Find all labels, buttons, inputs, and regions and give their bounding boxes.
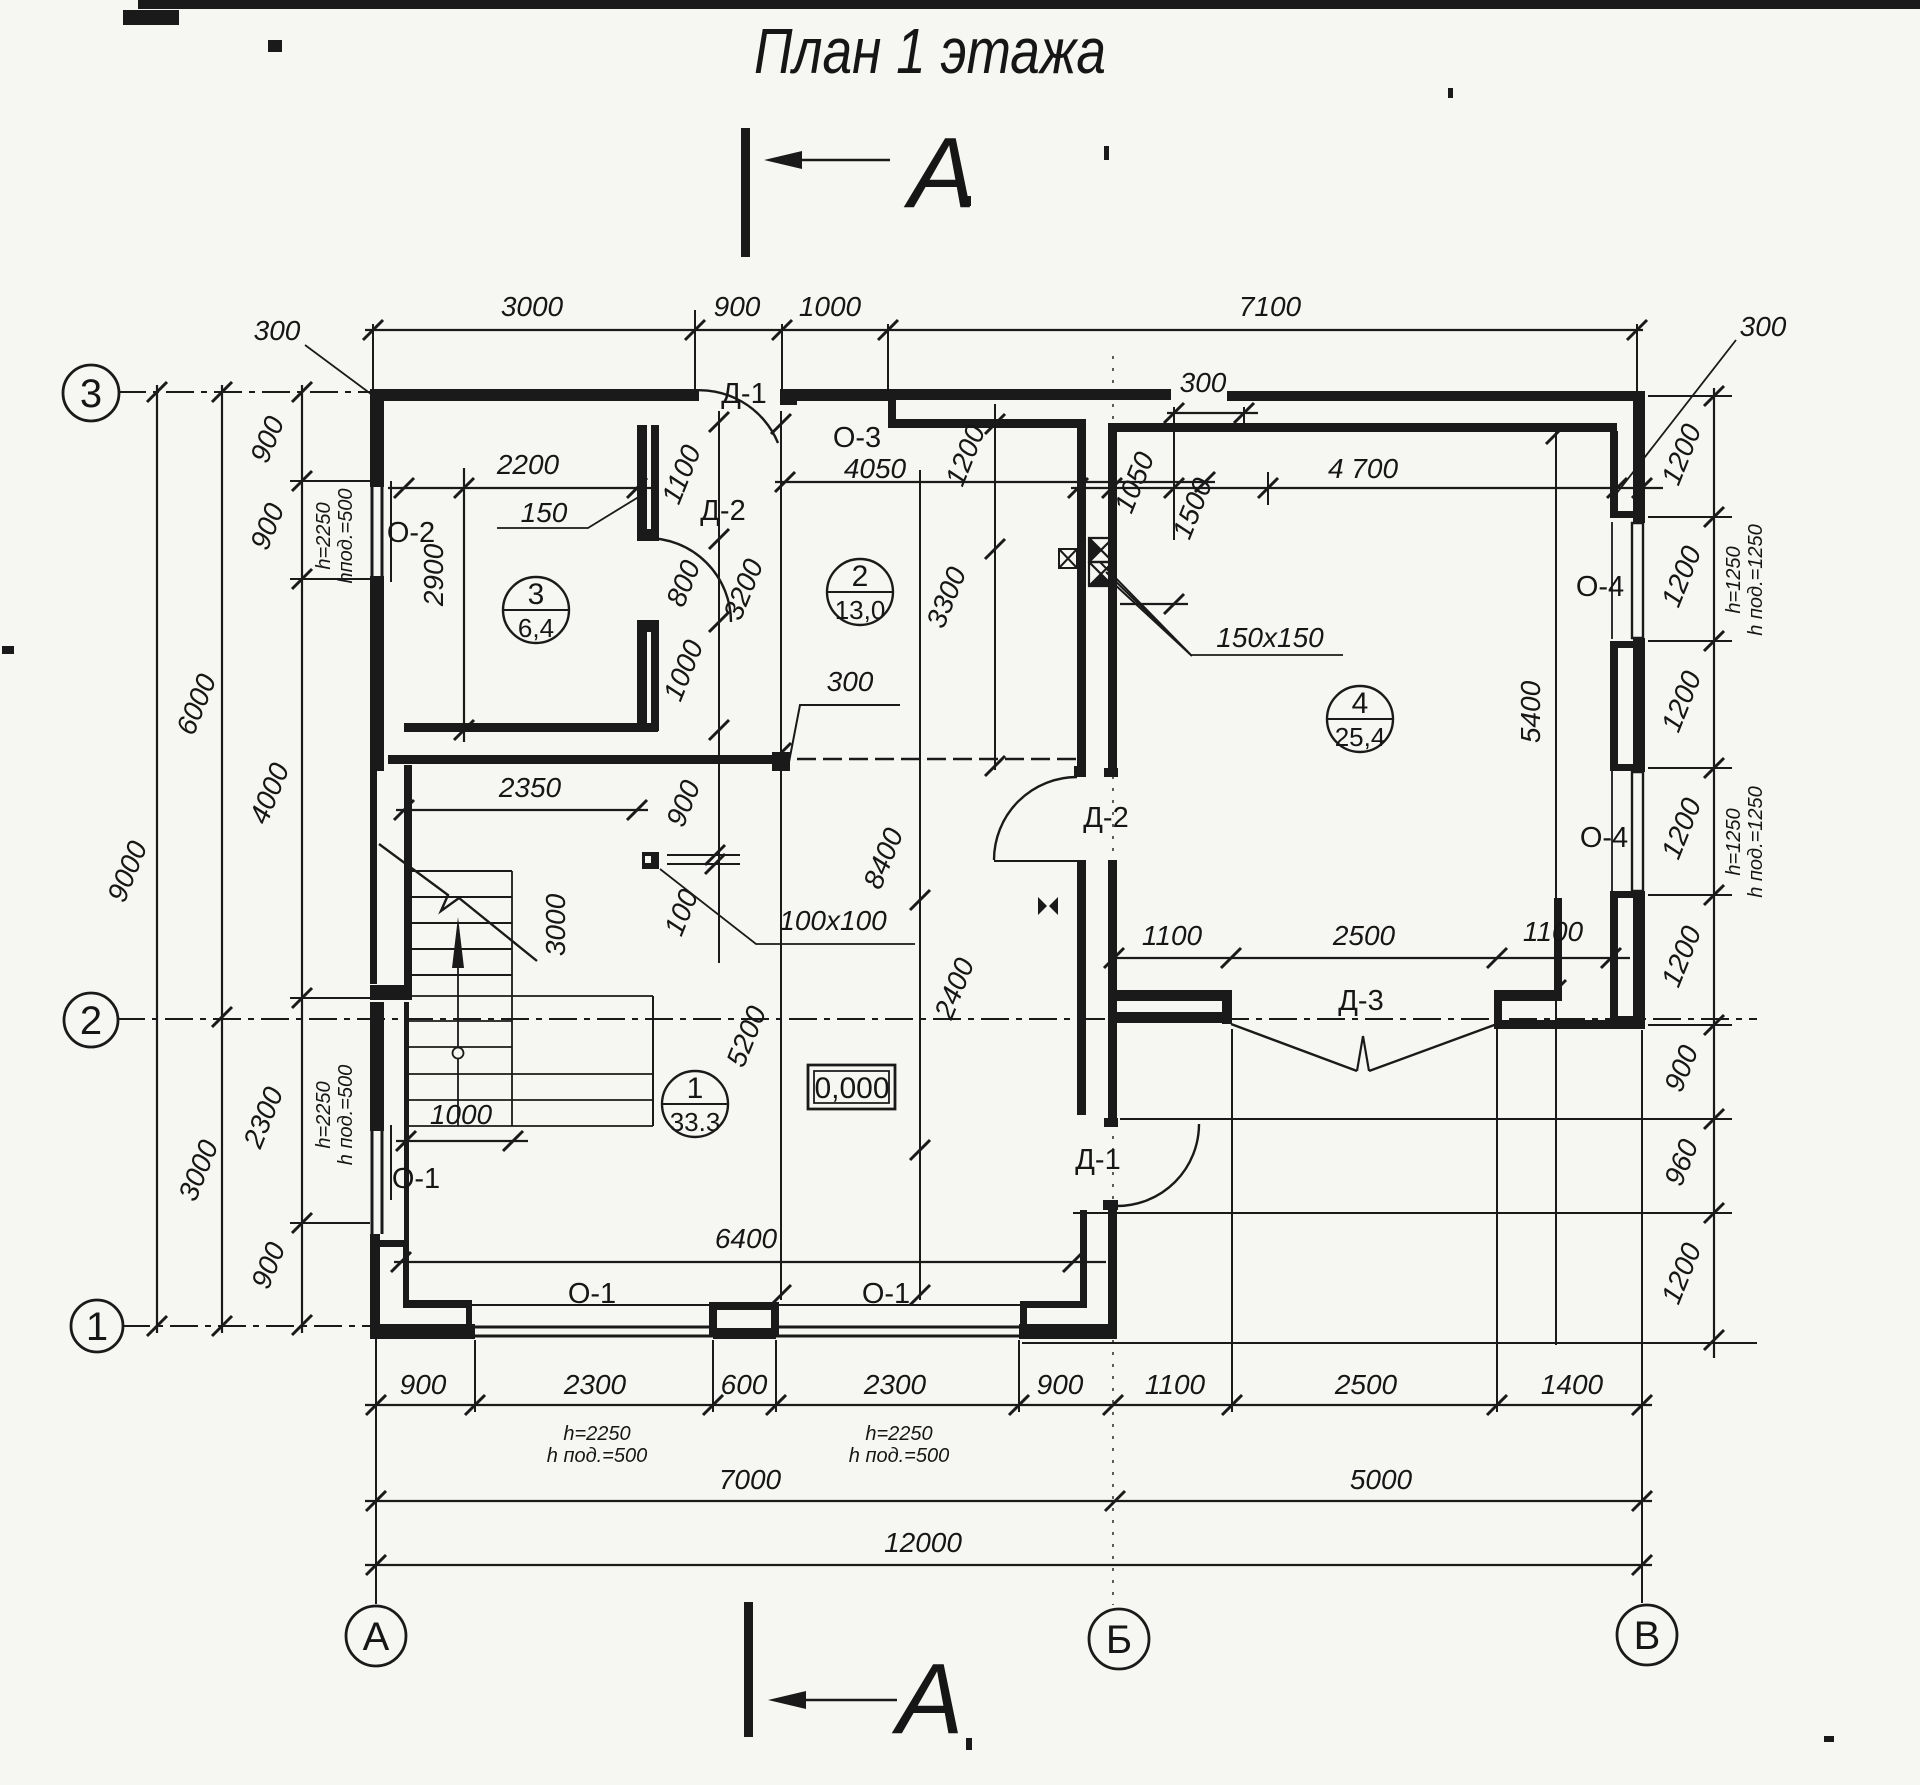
svg-text:2300: 2300 <box>863 1369 927 1400</box>
svg-text:2350: 2350 <box>498 772 562 803</box>
overhead beam dashed <box>797 758 1077 760</box>
svg-text:1400: 1400 <box>1541 1369 1604 1400</box>
svg-text:1100: 1100 <box>1523 916 1584 947</box>
middle wall W1 jog horizontal <box>1020 1301 1087 1308</box>
middle wall W2 mid segment <box>1108 860 1117 1126</box>
window О-2 outer line <box>371 487 374 576</box>
svg-text:Д-1: Д-1 <box>721 378 766 410</box>
right wall jog 4 <box>1610 891 1634 898</box>
middle wall W2 cap mid <box>1104 1118 1118 1127</box>
left outer wall thin section along stair <box>370 771 377 984</box>
door Д-1 hall swing arc <box>1117 1124 1199 1206</box>
right outer wall east segment 3 <box>1633 891 1645 1029</box>
room circle room 4 <box>1327 686 1393 752</box>
stair step 3 <box>404 922 512 924</box>
svg-text:1100: 1100 <box>1145 1369 1206 1400</box>
svg-text:25,4: 25,4 <box>1335 722 1386 752</box>
svg-text:1100: 1100 <box>1142 920 1203 951</box>
bay inner wall A <box>1494 990 1562 1001</box>
note h=2250 left upper <box>313 489 357 584</box>
svg-text:1000: 1000 <box>799 291 862 322</box>
window О-4 lower box <box>1632 772 1643 891</box>
extension line y641 right <box>1648 640 1732 642</box>
svg-text:О-4: О-4 <box>1580 822 1628 854</box>
stair step 7 <box>404 1046 512 1048</box>
note h=2250 left lower <box>313 1065 357 1165</box>
stair side wall thin <box>404 765 412 998</box>
dim tick x920 a <box>910 890 930 910</box>
corner niche bottom <box>403 1300 472 1308</box>
dimension line right 1050/1500/4700 <box>1068 478 1663 498</box>
corner niche right wall upper <box>403 1243 409 1306</box>
dimension line room4 1100/2500/1100 <box>1104 948 1630 968</box>
svg-text:h=2250: h=2250 <box>563 1423 630 1445</box>
room 3 partition lower strip right <box>651 622 659 731</box>
extension line x1637 top <box>1636 324 1638 391</box>
extension line x1244 <box>1243 407 1245 430</box>
svg-text:А: А <box>904 117 976 229</box>
extension line x888 top <box>887 324 889 389</box>
room 3 bottom wall <box>404 723 658 732</box>
svg-text:5000: 5000 <box>1350 1464 1413 1495</box>
svg-text:900: 900 <box>714 291 761 322</box>
extension line x475 bottom <box>474 1340 476 1412</box>
dimension line mid 300 <box>1164 403 1258 423</box>
svg-text:2500: 2500 <box>1332 920 1396 951</box>
dimension line room3 2900 <box>454 468 474 742</box>
leader 150 <box>497 493 645 528</box>
window О-1 left sill line <box>390 1125 392 1200</box>
window О-2 sill line <box>390 481 392 582</box>
section mark A top: arrowhead <box>764 151 802 169</box>
svg-text:900: 900 <box>400 1369 447 1400</box>
svg-text:Д-2: Д-2 <box>1083 802 1128 834</box>
dimension line post 1500 sub <box>1120 594 1188 614</box>
svg-text:7100: 7100 <box>1239 291 1302 322</box>
svg-text:900: 900 <box>1037 1369 1084 1400</box>
door Д-3 leaf left <box>1231 1024 1357 1071</box>
middle wall W1 mid segment <box>1077 860 1086 1115</box>
extension line x781 <box>780 411 782 1300</box>
extension line x1174 <box>1173 407 1175 540</box>
dim tick 5400 bottom <box>1546 980 1566 1000</box>
dimension line stair 1000 <box>396 1131 528 1151</box>
svg-text:1000: 1000 <box>430 1099 493 1130</box>
svg-text:2500: 2500 <box>1334 1369 1398 1400</box>
bottom window О-1 right sill line <box>770 1304 1025 1306</box>
extension line y1119 right <box>1120 1118 1732 1120</box>
bay left connector <box>1494 990 1502 1029</box>
top wall outer line over window О-3 <box>892 389 1171 400</box>
post leader shelf <box>1190 654 1343 656</box>
stair step 4 <box>404 948 512 950</box>
svg-text:6400: 6400 <box>715 1223 778 1254</box>
window О-3 inner wall line <box>892 419 1083 428</box>
svg-text:6,4: 6,4 <box>518 613 554 643</box>
corner niche top <box>372 1240 408 1247</box>
left outer wall bottom section <box>370 1234 380 1337</box>
svg-text:0,000: 0,000 <box>814 1072 889 1105</box>
dim tick x719 1000 <box>709 720 729 740</box>
stair step 1 <box>404 870 512 872</box>
dimension line bottom chain 12000 <box>365 1555 1652 1575</box>
dimension line bottom chain 7000/5000 <box>365 1491 1652 1511</box>
svg-text:h под.=500: h под.=500 <box>849 1445 949 1467</box>
svg-text:2200: 2200 <box>496 449 560 480</box>
svg-text:h под.=500: h под.=500 <box>335 1065 357 1165</box>
dim tick x781 mid <box>771 743 791 763</box>
svg-text:Б: Б <box>1106 1618 1132 1662</box>
extension line y517 right <box>1648 516 1732 518</box>
room 3 partition jamb cap lower <box>637 620 659 632</box>
svg-text:300: 300 <box>254 315 301 346</box>
door Д-2 room3 swing arc <box>647 538 731 622</box>
svg-text:А: А <box>892 1643 964 1755</box>
room 1 top partition end cap <box>772 752 790 771</box>
extension line y1213 right <box>1073 1212 1732 1214</box>
stair cut line <box>379 844 537 961</box>
svg-text:33.3: 33.3 <box>670 1107 721 1137</box>
stair landing edge <box>652 996 654 1126</box>
svg-text:7000: 7000 <box>719 1464 782 1495</box>
stair step 8 wide <box>404 1073 653 1075</box>
stair step 5 wide <box>404 995 653 997</box>
stair step 5 <box>404 974 512 976</box>
extension line y895 right <box>1648 894 1732 896</box>
svg-text:3: 3 <box>528 578 545 611</box>
bottom wall pier at axis А <box>370 1324 475 1339</box>
dim tick x995 mid <box>985 539 1005 559</box>
window О-1 left inner line <box>381 1131 384 1234</box>
extension line y1025 right <box>1648 1024 1732 1026</box>
extension line x920 <box>919 470 921 1300</box>
axis line 2 <box>117 1018 1757 1020</box>
dim tick x920 c <box>910 1285 930 1305</box>
axis circle А <box>346 1606 406 1666</box>
dim tick x719 1100 <box>709 529 729 549</box>
top wall left of door Д-1 <box>370 389 699 401</box>
stair stringer line <box>511 871 513 1126</box>
post leader lines <box>1100 562 1192 656</box>
stair wall extension down <box>404 1002 409 1245</box>
svg-text:100x100: 100x100 <box>779 905 887 936</box>
svg-text:h=1250: h=1250 <box>1723 546 1745 613</box>
dim tick x719 800 <box>709 612 729 632</box>
dim tick post 100 b <box>705 854 725 874</box>
dim tick x995 top <box>985 414 1005 434</box>
stair direction arrow shaft <box>457 950 459 1126</box>
extension line x995 <box>994 404 996 770</box>
svg-text:h=2250: h=2250 <box>865 1423 932 1445</box>
dimension line О-3 4050 <box>775 472 1215 492</box>
svg-text:h=2250: h=2250 <box>313 502 335 569</box>
svg-text:300: 300 <box>827 666 874 697</box>
scan speck <box>1448 88 1453 98</box>
window О-4 upper box <box>1632 523 1643 638</box>
svg-text:О-1: О-1 <box>862 1278 910 1310</box>
bottom window О-1 outer line <box>475 1326 713 1329</box>
extension line y579 <box>290 578 370 580</box>
svg-text:300: 300 <box>1180 367 1227 398</box>
dimension line room1 6400 <box>391 1252 1106 1272</box>
scan speck bottom middle <box>966 1738 972 1750</box>
extension line x713 bottom <box>712 1340 714 1412</box>
axis line В vertical below plan <box>1641 1030 1643 1603</box>
section mark A bottom: arrowhead <box>768 1691 806 1709</box>
svg-text:2: 2 <box>852 560 869 593</box>
scan artifact left smudge <box>123 10 179 25</box>
door Д-2 hall swing arc <box>994 777 1077 860</box>
room circle room 2 <box>827 559 893 625</box>
dim tick x995 bottom <box>985 756 1005 776</box>
top wall between Д-1 and О-3 <box>782 389 892 401</box>
stair niche bottom cap <box>370 985 412 1000</box>
middle wall W2 cap upper <box>1104 768 1118 777</box>
dim tick x781 top <box>771 414 791 434</box>
right outer wall east segment 2 <box>1633 638 1645 772</box>
room 3 partition jamb cap upper <box>637 529 659 541</box>
bay bottom wall C <box>1494 1020 1643 1029</box>
extension line x373 top <box>372 324 374 389</box>
svg-text:Д-1: Д-1 <box>1075 1144 1120 1176</box>
note h=2250 bottom left <box>547 1423 647 1467</box>
svg-text:5400: 5400 <box>1515 680 1546 743</box>
room circle room 3 <box>503 577 569 643</box>
dim tick x920 b <box>910 1140 930 1160</box>
dimension line left 9000 <box>147 382 167 1336</box>
section mark A top: bar <box>741 128 750 257</box>
extension line y396 right <box>1648 395 1732 397</box>
svg-text:4: 4 <box>1352 687 1369 720</box>
post 150x150 lower <box>1089 562 1113 586</box>
stair direction arrow head <box>452 917 464 968</box>
scan speck bottom right <box>1824 1736 1834 1742</box>
porch niche at middle pier <box>709 1302 779 1337</box>
svg-text:h под.=1250: h под.=1250 <box>1745 786 1767 898</box>
svg-text:h=2250: h=2250 <box>313 1081 335 1148</box>
right wall jog 2 <box>1610 641 1634 648</box>
axis line А vertical below plan <box>375 1337 377 1604</box>
svg-text:О-1: О-1 <box>568 1278 616 1310</box>
svg-text:13,0: 13,0 <box>835 595 886 625</box>
stair arrow start circle <box>453 1048 464 1059</box>
note h=1250 right upper <box>1723 524 1767 636</box>
stair step 9 wide <box>404 1099 653 1101</box>
door jamb stub right of Д-1 <box>780 389 797 405</box>
svg-text:О-2: О-2 <box>387 517 435 549</box>
svg-text:150x150: 150x150 <box>1216 622 1324 653</box>
stair step 2 <box>404 896 512 898</box>
svg-text:В: В <box>1634 1614 1661 1658</box>
room 4 bottom wall lower line <box>1114 1012 1232 1023</box>
scan speck left edge <box>2 646 14 654</box>
bottom wall pier right <box>1019 1324 1117 1339</box>
scan speck <box>1104 146 1109 160</box>
scan artifact top black bar <box>138 0 1920 9</box>
window О-2 inner line <box>381 487 384 576</box>
door Д-3 center spike <box>1357 1036 1369 1071</box>
dimension line room3 2200 <box>388 478 652 498</box>
svg-text:Д-3: Д-3 <box>1338 985 1383 1017</box>
right wall jog 1 <box>1610 511 1634 518</box>
right inner wall segment 1 <box>1610 431 1618 517</box>
svg-text:О-4: О-4 <box>1576 571 1624 603</box>
left outer wall below stair <box>370 1002 384 1131</box>
left outer wall top section <box>370 389 384 487</box>
bottom window О-1 right outer line <box>776 1326 1019 1329</box>
svg-text:150: 150 <box>521 497 568 528</box>
svg-text:Д-2: Д-2 <box>700 495 745 527</box>
axis line 3 <box>118 391 370 393</box>
room circle room 1 <box>662 1071 728 1137</box>
svg-text:h под.=500: h под.=500 <box>547 1445 647 1467</box>
right wall jog 5 <box>1610 1016 1634 1023</box>
window О-3 left jamb <box>888 398 896 428</box>
svg-text:План 1 этажа: План 1 этажа <box>754 15 1106 87</box>
extension line y998 <box>290 997 404 999</box>
section mark A top: arrow line <box>788 159 890 162</box>
section mark A bottom: arrow line <box>792 1699 897 1702</box>
bay inner wall B vertical <box>1554 898 1562 1001</box>
axis circle 2 <box>64 993 118 1047</box>
middle wall W1 cap <box>1074 766 1086 777</box>
corner niche right wall lower <box>466 1308 472 1327</box>
leader 300 top-right <box>1613 340 1736 498</box>
extension line x1019 bottom <box>1018 1340 1020 1412</box>
middle wall W2 hinge cap <box>1103 1200 1118 1210</box>
dimension line right chain <box>1704 386 1724 1358</box>
dimension line stair 2350 <box>394 800 648 820</box>
room 4 height dim line <box>1555 430 1557 1345</box>
extension line y1223 <box>290 1222 370 1224</box>
left outer wall middle section <box>370 576 384 771</box>
svg-text:300: 300 <box>1740 311 1787 342</box>
room 4 bottom wall west of Д-3 <box>1108 990 1232 1001</box>
dim tick x781 bottom <box>771 1285 791 1305</box>
room 3 partition upper strip right <box>651 425 659 537</box>
dimension line left 6000/3000 <box>212 382 232 1336</box>
bottom wall middle pier <box>713 1324 776 1339</box>
axis circle 3 <box>63 365 119 421</box>
extension line y481 <box>290 480 370 482</box>
svg-text:2300: 2300 <box>563 1369 627 1400</box>
middle wall W2 upper segment <box>1108 423 1117 777</box>
svg-text:О-1: О-1 <box>392 1163 440 1195</box>
elevation mark 0,000 box <box>808 1065 895 1109</box>
middle wall W1 jog vertical <box>1020 1308 1027 1331</box>
room 1 top partition <box>388 755 787 764</box>
svg-text:12000: 12000 <box>884 1527 962 1558</box>
right block top outer wall <box>1227 391 1645 401</box>
section mark A bottom: bar <box>744 1602 753 1737</box>
right block top inner wall <box>1111 423 1617 432</box>
extension line x1497 bottom <box>1496 1029 1498 1412</box>
note h=1250 right lower <box>1723 786 1767 898</box>
room 3 partition lower strip left <box>637 622 647 731</box>
scan speck <box>963 196 971 206</box>
window О-1 left outer line <box>371 1131 374 1234</box>
svg-text:О-3: О-3 <box>833 422 881 454</box>
extension line x782 top <box>781 324 783 389</box>
svg-text:h под.=1250: h под.=1250 <box>1745 524 1767 636</box>
right wall jog 3 <box>1610 764 1634 771</box>
axis circle Б <box>1089 1609 1149 1669</box>
scan speck <box>268 40 282 52</box>
middle wall W2 lower segment <box>1108 1205 1117 1337</box>
middle wall W1 upper segment <box>1077 419 1086 775</box>
post 100x100 square <box>642 852 659 869</box>
post 150x150 on wall <box>1059 549 1077 568</box>
right outer wall east segment 1 <box>1633 391 1645 523</box>
door Д-2 hall leaf line <box>994 860 1077 862</box>
note h=2250 bottom right <box>849 1423 949 1467</box>
leader 300 top-left <box>305 345 371 394</box>
svg-text:2900: 2900 <box>418 543 449 607</box>
svg-text:600: 600 <box>721 1369 768 1400</box>
svg-text:А: А <box>363 1615 390 1659</box>
right inner wall segment 2 <box>1610 641 1618 771</box>
extension line x1232 bottom <box>1231 1029 1233 1412</box>
extension line x776 bottom <box>775 1340 777 1412</box>
svg-text:1: 1 <box>86 1305 108 1349</box>
dim tick post 100 a <box>705 845 725 865</box>
door Д-1 top swing arc <box>688 390 778 443</box>
post 150x150 upper <box>1089 538 1113 562</box>
dimension line top chain 3000/900/1000/7100 <box>363 320 1647 340</box>
bottom window О-1 inner line <box>475 1335 713 1338</box>
svg-text:3: 3 <box>80 372 102 416</box>
svg-text:1: 1 <box>687 1072 704 1105</box>
svg-text:hпод.=500: hпод.=500 <box>335 489 357 584</box>
right inner wall segment 3 <box>1610 891 1618 1022</box>
svg-text:h=1250: h=1250 <box>1723 808 1745 875</box>
svg-text:2: 2 <box>80 999 102 1043</box>
extension line y1340 right <box>1022 1342 1757 1344</box>
post 100 dim lines <box>667 855 740 864</box>
post leader <box>660 869 915 944</box>
lintel bowtie mark <box>1038 897 1058 915</box>
extension line y768 right <box>1648 767 1732 769</box>
extension line x1268 <box>1267 472 1269 505</box>
svg-text:3000: 3000 <box>501 291 564 322</box>
middle wall W1 lower segment <box>1080 1210 1087 1308</box>
axis line 1 <box>122 1325 370 1327</box>
axis circle В <box>1617 1605 1677 1665</box>
dim tick x719 top <box>709 412 729 432</box>
extension line x695 top <box>694 310 696 389</box>
axis line Б vertical <box>1112 356 1114 1605</box>
extension line x719 <box>718 411 720 963</box>
svg-text:4 700: 4 700 <box>1328 453 1398 484</box>
dimension line bottom chain 1 <box>365 1395 1652 1415</box>
stair step 6 <box>404 1020 512 1022</box>
room 4 bottom wall step <box>1222 1001 1232 1024</box>
dimension line left 900/900/4000/2300/900 <box>292 382 312 1335</box>
bottom window О-1 right inner line <box>776 1335 1019 1338</box>
leader 300 beam <box>789 705 900 762</box>
door Д-3 leaf right <box>1369 1024 1497 1071</box>
bottom window О-1 sill line <box>469 1304 719 1306</box>
dim tick 5400 top <box>1546 424 1566 444</box>
room 3 partition upper strip left <box>637 425 647 537</box>
svg-text:4050: 4050 <box>844 453 907 484</box>
svg-text:3000: 3000 <box>540 893 571 956</box>
stair step 10 wide <box>404 1125 653 1127</box>
axis circle 1 <box>71 1300 123 1352</box>
